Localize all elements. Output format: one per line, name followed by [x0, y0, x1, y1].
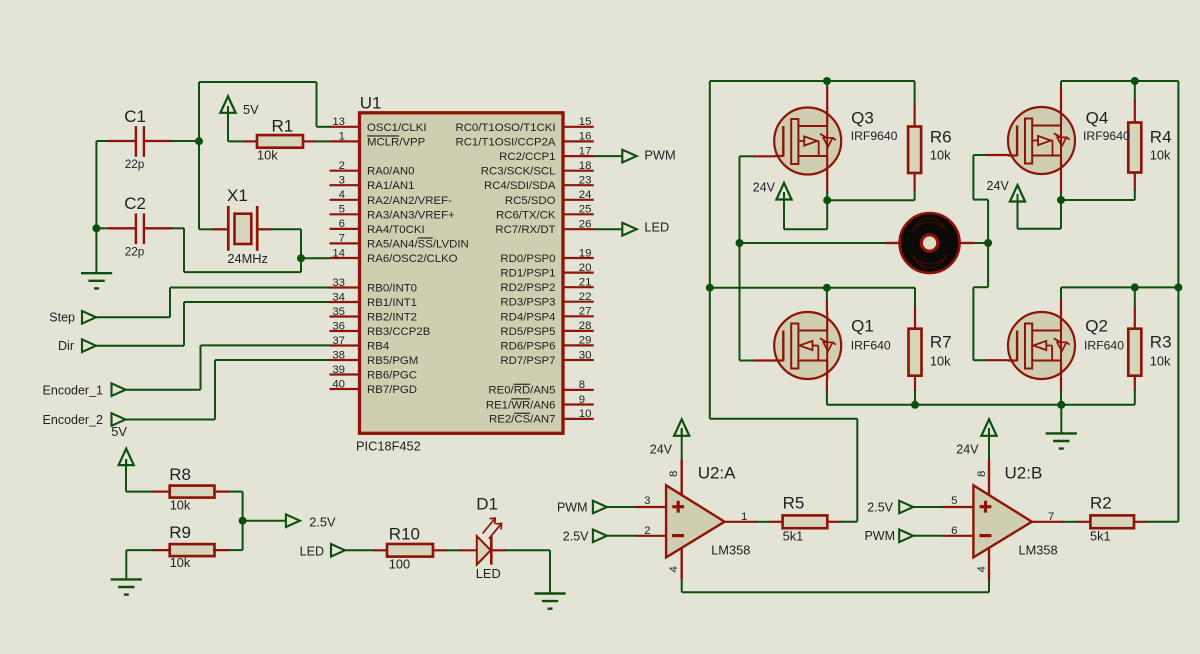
svg-text:36: 36: [332, 320, 345, 332]
resistor R7: [914, 307, 916, 329]
pin 19 stub (right): [564, 257, 594, 259]
pin 5 stub (left): [330, 213, 359, 215]
node Q2 source junction: [1057, 401, 1065, 409]
pin 3 stub (left): [330, 184, 359, 186]
wire C1 left to ground net: [96, 140, 109, 142]
svg-text:RB5/PGM: RB5/PGM: [367, 355, 418, 367]
svg-text:RD7/PSP7: RD7/PSP7: [500, 355, 555, 367]
wire Q4 gate lead: [987, 154, 1010, 156]
pin 9 stub (right): [564, 403, 594, 405]
svg-text:22p: 22p: [125, 157, 145, 171]
svg-text:LM358: LM358: [711, 542, 750, 557]
svg-text:10: 10: [579, 408, 592, 420]
svg-text:10k: 10k: [170, 555, 191, 570]
wire R10 to D1: [445, 549, 460, 551]
svg-text:Q2: Q2: [1085, 317, 1108, 336]
svg-text:X1: X1: [227, 186, 248, 205]
node right bus junction: [1174, 283, 1182, 291]
svg-text:2: 2: [339, 160, 345, 172]
wire R9 to ground: [126, 549, 153, 551]
resistor R1: [244, 140, 257, 142]
pin 6 stub (left): [330, 228, 359, 230]
svg-text:RD1/PSP1: RD1/PSP1: [500, 268, 555, 280]
node R7 bottom junction: [911, 401, 919, 409]
resistor R5: [770, 521, 783, 523]
pin 33 stub (left): [330, 286, 359, 288]
node OSC1 junction: [195, 137, 203, 145]
svg-text:4: 4: [976, 566, 988, 572]
svg-text:10k: 10k: [930, 353, 951, 368]
svg-text:PIC18F452: PIC18F452: [356, 439, 421, 454]
wire pin 7 to R2: [1032, 521, 1064, 523]
svg-text:RC7/RX/DT: RC7/RX/DT: [495, 224, 555, 236]
pin 38 stub (left): [330, 359, 359, 361]
crystal X1: [213, 228, 229, 230]
pin 8 stub (right): [564, 389, 594, 391]
svg-text:29: 29: [579, 335, 592, 347]
svg-text:R7: R7: [930, 333, 952, 352]
svg-text:RE1/WR/AN6: RE1/WR/AN6: [486, 399, 556, 411]
svg-text:Step: Step: [49, 311, 75, 325]
resistor R3: [1134, 287, 1136, 308]
pin 10 stub (right): [564, 418, 594, 420]
svg-text:LED: LED: [476, 566, 501, 581]
svg-text:C2: C2: [124, 194, 146, 213]
pin 34 stub (left): [330, 301, 359, 303]
wire Q1 source / ground bus: [826, 392, 828, 405]
svg-text:RA2/AN2/VREF-: RA2/AN2/VREF-: [367, 195, 452, 207]
svg-text:4: 4: [339, 189, 345, 201]
svg-text:34: 34: [332, 291, 345, 303]
wire Q2 gate lead: [987, 359, 1010, 361]
wire OSC1 to pin 13: [199, 81, 317, 83]
node R3 top junction: [1131, 283, 1139, 291]
svg-text:14: 14: [332, 247, 345, 259]
wire 2.5V to pin 2: [607, 535, 637, 537]
svg-text:5V: 5V: [243, 102, 259, 117]
svg-text:2.5V: 2.5V: [309, 515, 336, 530]
svg-text:PWM: PWM: [864, 529, 895, 543]
svg-text:8: 8: [976, 471, 988, 477]
wire pin 4 rail: [681, 579, 683, 593]
svg-text:RA0/AN0: RA0/AN0: [367, 166, 414, 178]
svg-text:R2: R2: [1090, 494, 1112, 513]
resistor R6: [908, 127, 921, 174]
svg-text:RE0/RD/AN5: RE0/RD/AN5: [488, 385, 555, 397]
svg-text:3: 3: [644, 495, 650, 507]
resistor R9: [153, 549, 170, 551]
svg-text:C1: C1: [124, 107, 146, 126]
node motor right junction: [984, 239, 992, 247]
svg-text:Q3: Q3: [851, 108, 874, 127]
svg-text:28: 28: [579, 320, 592, 332]
svg-text:IRF9640: IRF9640: [1083, 129, 1130, 143]
svg-text:RB1/INT1: RB1/INT1: [367, 297, 417, 309]
node OSC2 junction: [297, 254, 305, 262]
wire PWM to pin 6: [914, 535, 945, 537]
wire OSC1 vertical net: [198, 82, 200, 229]
svg-text:RC5/SDO: RC5/SDO: [505, 195, 556, 207]
wire Q1 gate lead: [754, 359, 775, 361]
pin 17 stub (right): [564, 155, 594, 157]
svg-text:RD4/PSP4: RD4/PSP4: [500, 311, 555, 323]
node Q4 source junction: [1057, 196, 1065, 204]
node Q3 drain junction: [823, 77, 831, 85]
svg-text:RB7/PGD: RB7/PGD: [367, 384, 417, 396]
wire pin 1 to R5: [725, 521, 757, 523]
wire 5V to R8: [125, 459, 127, 492]
node left bus junction: [706, 284, 714, 292]
svg-text:LED: LED: [300, 544, 324, 558]
svg-text:10k: 10k: [930, 147, 951, 162]
svg-text:RB3/CCP2B: RB3/CCP2B: [367, 326, 430, 338]
wire net Q2 drain row (right): [1061, 286, 1178, 288]
wire net opamp-A output bus (left): [709, 81, 711, 419]
svg-text:37: 37: [332, 335, 345, 347]
diode D1 LED: [459, 549, 477, 551]
wire R5 to left bus: [840, 521, 858, 523]
wire 24V to Q3 source: [783, 192, 785, 229]
wire ground stem (H-bridge): [1060, 405, 1062, 434]
pin 37 stub (left): [330, 344, 359, 346]
svg-text:Encoder_1: Encoder_1: [43, 383, 104, 397]
svg-text:10k: 10k: [257, 148, 278, 163]
svg-text:39: 39: [332, 364, 345, 376]
svg-text:30: 30: [579, 349, 592, 361]
wire pin 26 to LED terminal: [593, 228, 622, 230]
capacitor C1: [108, 140, 136, 142]
svg-text:Dir: Dir: [58, 339, 74, 353]
svg-text:Encoder_2: Encoder_2: [43, 413, 104, 427]
motor: [886, 242, 900, 244]
wire 24V to Q4 source: [1017, 194, 1019, 229]
resistor R8: [153, 490, 170, 492]
svg-text:IRF9640: IRF9640: [851, 129, 898, 143]
pin 24 stub (right): [564, 199, 594, 201]
pin 4 stub (left): [330, 199, 359, 201]
pin 29 stub (right): [564, 344, 594, 346]
wire PWM to pin 3: [607, 506, 637, 508]
power 5V (top): [220, 96, 235, 113]
svg-text:2.5V: 2.5V: [563, 529, 589, 543]
svg-text:7: 7: [339, 233, 345, 245]
wire net Q1 drain row (left): [710, 287, 915, 289]
svg-text:R8: R8: [169, 465, 191, 484]
svg-text:1: 1: [339, 131, 345, 143]
svg-text:RD2/PSP2: RD2/PSP2: [500, 282, 555, 294]
svg-text:15: 15: [579, 116, 592, 128]
svg-text:U2:B: U2:B: [1005, 463, 1043, 482]
svg-text:PWM: PWM: [644, 148, 675, 163]
node Q3 source junction: [823, 196, 831, 204]
svg-text:3: 3: [339, 175, 345, 187]
wire D1 to ground: [505, 549, 550, 551]
wire crystal left: [199, 228, 214, 230]
pin 35 stub (left): [330, 315, 359, 317]
svg-text:Q4: Q4: [1086, 108, 1109, 127]
node R4 top junction: [1131, 77, 1139, 85]
wire Q4/Q2 gate net (right): [973, 154, 987, 156]
wire net opamp-B output bus (right): [1177, 81, 1179, 522]
pin 26 stub (right): [564, 228, 594, 230]
wire R2 to right bus: [1146, 521, 1178, 523]
transistor Q4 IRF9640: [1060, 81, 1062, 88]
svg-text:17: 17: [579, 145, 592, 157]
D1 emission arrows: [483, 518, 496, 533]
svg-text:IRF640: IRF640: [851, 338, 891, 352]
svg-text:MCLR/VPP: MCLR/VPP: [367, 136, 425, 148]
svg-text:RC3/SCK/SCL: RC3/SCK/SCL: [481, 166, 556, 178]
transistor Q1 IRF640: [826, 288, 828, 301]
pin 18 stub (right): [564, 170, 594, 172]
resistor R2: [1077, 521, 1090, 523]
svg-text:RA5/AN4/SS/LVDIN: RA5/AN4/SS/LVDIN: [367, 238, 469, 250]
pin 39 stub (left): [330, 373, 359, 375]
pin 40 stub (left): [330, 388, 359, 390]
svg-text:27: 27: [579, 306, 592, 318]
wire 24V to pin 8 (U2:A): [681, 428, 683, 461]
svg-text:LED: LED: [644, 220, 669, 235]
svg-text:100: 100: [389, 557, 410, 572]
wire motor right to gate net: [974, 242, 989, 244]
svg-text:25: 25: [579, 204, 592, 216]
svg-text:8: 8: [668, 471, 680, 477]
svg-text:4: 4: [668, 566, 680, 572]
node Q1 drain junction: [823, 284, 831, 292]
svg-text:6: 6: [339, 218, 345, 230]
svg-text:U1: U1: [360, 93, 382, 112]
svg-text:35: 35: [332, 306, 345, 318]
pin 21 stub (right): [564, 286, 594, 288]
svg-text:RB0/INT0: RB0/INT0: [367, 283, 417, 295]
svg-text:16: 16: [579, 131, 592, 143]
svg-text:R1: R1: [272, 116, 294, 135]
svg-text:RD5/PSP5: RD5/PSP5: [500, 326, 555, 338]
terminal PWM output: [622, 150, 636, 163]
svg-text:13: 13: [332, 116, 345, 128]
svg-text:RB6/PGC: RB6/PGC: [367, 370, 417, 382]
resistor R4: [1128, 123, 1141, 173]
svg-text:LM358: LM358: [1019, 542, 1058, 557]
svg-text:R3: R3: [1150, 333, 1172, 352]
wire R1 to pin 1: [316, 140, 331, 142]
wire Q2 source to bus: [1060, 391, 1062, 405]
svg-text:22: 22: [579, 291, 592, 303]
svg-text:RA4/T0CKI: RA4/T0CKI: [367, 224, 425, 236]
pin 16 stub (right): [564, 140, 594, 142]
svg-text:24MHz: 24MHz: [227, 251, 268, 266]
wire Encoder_2 to pin 38: [126, 419, 216, 421]
ground (D1): [534, 592, 565, 594]
svg-text:38: 38: [332, 349, 345, 361]
wire LED terminal to R10: [345, 549, 375, 551]
wire R8-R9 junction to 2.5V: [229, 491, 242, 493]
svg-text:RD3/PSP3: RD3/PSP3: [500, 297, 555, 309]
svg-text:R10: R10: [389, 525, 420, 544]
wire R4 top lead: [1134, 81, 1136, 101]
ground (left oscillator): [81, 272, 112, 274]
svg-text:24: 24: [579, 189, 592, 201]
capacitor C2: [108, 227, 136, 229]
svg-text:23: 23: [579, 175, 592, 187]
svg-text:26: 26: [579, 219, 592, 231]
pin 25 stub (right): [564, 213, 594, 215]
wire Encoder_1 to pin 37: [126, 389, 201, 391]
svg-text:RC0/T1OSO/T1CKI: RC0/T1OSO/T1CKI: [455, 122, 555, 134]
svg-text:5k1: 5k1: [1090, 528, 1111, 543]
wire R6 bottom to Q3 source: [913, 173, 915, 193]
wire Q3 gate net / motor left: [740, 155, 756, 157]
pin 2 stub (left): [330, 170, 359, 172]
wire R6 top lead: [914, 81, 916, 105]
svg-text:19: 19: [579, 247, 592, 259]
transistor Q2 IRF640: [1060, 287, 1062, 301]
wire Step to pin 33: [96, 316, 170, 318]
svg-text:10k: 10k: [1150, 147, 1171, 162]
svg-text:40: 40: [332, 378, 345, 390]
pin 13 stub (left): [330, 126, 359, 128]
terminal 2.5V (divider): [286, 514, 300, 527]
svg-text:Q1: Q1: [851, 317, 874, 336]
svg-text:RB4: RB4: [367, 341, 389, 353]
svg-text:24V: 24V: [753, 181, 776, 195]
svg-text:5V: 5V: [111, 424, 127, 439]
svg-text:8: 8: [579, 379, 585, 391]
svg-text:24V: 24V: [987, 179, 1010, 193]
wire R7 bottom lead: [914, 390, 916, 405]
svg-text:D1: D1: [476, 495, 498, 514]
wire Dir to pin 34: [96, 345, 184, 347]
wire pin 17 to PWM terminal: [593, 155, 622, 157]
wire C1 right to OSC1 net: [172, 140, 200, 142]
svg-text:RA1/AN1: RA1/AN1: [367, 180, 414, 192]
wire 24V to pin 8 (U2:B): [988, 428, 990, 461]
svg-text:RC6/TX/CK: RC6/TX/CK: [496, 209, 556, 221]
wire Q3 gate lead: [754, 155, 775, 157]
svg-text:2.5V: 2.5V: [867, 500, 893, 514]
transistor Q3 IRF9640: [826, 81, 828, 88]
svg-text:RC4/SDI/SDA: RC4/SDI/SDA: [484, 180, 556, 192]
svg-text:20: 20: [579, 262, 592, 274]
svg-text:PWM: PWM: [557, 501, 588, 515]
wire R4 bottom to Q4 source: [1134, 173, 1136, 192]
wire R3 bottom lead: [1134, 390, 1136, 405]
wire 2.5V to pin 5: [914, 506, 945, 508]
node C1-C2 ground junction: [92, 224, 100, 232]
svg-text:RD6/PSP6: RD6/PSP6: [500, 340, 555, 352]
terminal LED output: [622, 223, 636, 236]
resistor R10: [374, 549, 387, 551]
svg-text:R9: R9: [169, 523, 191, 542]
IC U1 PIC18F452 body: [360, 113, 564, 434]
op-amp U2:B: [988, 460, 990, 496]
pin 22 stub (right): [564, 301, 594, 303]
pin 30 stub (right): [564, 359, 594, 361]
svg-text:RA6/OSC2/CLKO: RA6/OSC2/CLKO: [367, 253, 458, 265]
node motor left junction: [736, 239, 744, 247]
svg-text:22p: 22p: [125, 244, 145, 258]
pin 15 stub (right): [564, 126, 594, 128]
svg-text:RC1/T1OSI/CCP2A: RC1/T1OSI/CCP2A: [455, 136, 555, 148]
pin 23 stub (right): [564, 184, 594, 186]
pin 7 stub (left): [330, 242, 359, 244]
svg-text:10k: 10k: [1150, 353, 1171, 368]
node divider junction: [239, 517, 247, 525]
ground (H-bridge): [1046, 432, 1077, 434]
svg-text:10k: 10k: [170, 498, 191, 513]
svg-text:R4: R4: [1150, 128, 1172, 147]
svg-text:RB2/INT2: RB2/INT2: [367, 312, 417, 324]
svg-text:R5: R5: [783, 494, 805, 513]
power 5V (divider): [119, 449, 134, 466]
pin 28 stub (right): [564, 330, 594, 332]
svg-text:R6: R6: [930, 128, 952, 147]
wire OSC2 to pin 14: [301, 257, 330, 259]
svg-text:24V: 24V: [956, 443, 979, 457]
svg-text:OSC1/CLKI: OSC1/CLKI: [367, 122, 427, 134]
svg-text:U2:A: U2:A: [698, 463, 736, 482]
svg-text:IRF640: IRF640: [1084, 338, 1124, 352]
wire C2 right to OSC2 net: [172, 227, 185, 229]
wire 5V to R1: [227, 106, 229, 141]
svg-text:5k1: 5k1: [783, 528, 804, 543]
svg-text:RE2/CS/AN7: RE2/CS/AN7: [489, 414, 555, 426]
svg-text:RC2/CCP1: RC2/CCP1: [499, 151, 555, 163]
svg-text:5: 5: [951, 495, 957, 507]
svg-text:21: 21: [579, 277, 592, 289]
svg-text:9: 9: [579, 394, 585, 406]
pin 20 stub (right): [564, 272, 594, 274]
pin 14 stub (left): [330, 257, 359, 259]
svg-text:5: 5: [339, 204, 345, 216]
svg-text:18: 18: [579, 160, 592, 172]
wire crystal right: [271, 228, 301, 230]
svg-text:RD0/PSP0: RD0/PSP0: [500, 253, 555, 265]
svg-text:33: 33: [332, 277, 345, 289]
pin 27 stub (right): [564, 315, 594, 317]
op-amp U2:A: [681, 460, 683, 496]
svg-text:24V: 24V: [650, 443, 673, 457]
pin 1 stub (left): [330, 140, 359, 142]
pin 36 stub (left): [330, 330, 359, 332]
ground (divider): [111, 578, 142, 580]
svg-text:RA3/AN3/VREF+: RA3/AN3/VREF+: [367, 209, 455, 221]
